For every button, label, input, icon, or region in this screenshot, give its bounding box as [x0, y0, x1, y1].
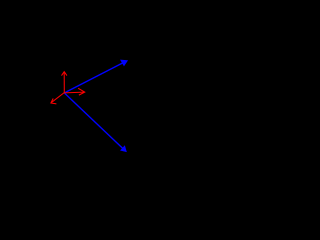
frame axis Y (red) arrowhead — [62, 72, 67, 76]
frame axis X (red) arrowhead — [78, 88, 85, 95]
vector V1 (blue) arrowhead — [121, 60, 128, 66]
frame axis Y (red, up) shaft — [63, 72, 65, 92]
frame axis Z (red) arrowhead — [51, 99, 57, 104]
frame axis X (red, right) shaft — [64, 91, 84, 94]
vector V2 (blue, down-right) shaft — [64, 93, 123, 149]
vector V1 (blue, up-right) shaft — [64, 62, 124, 93]
vector V2 (blue) arrowhead — [121, 146, 127, 152]
frame axis Z (red, down-left) shaft — [52, 93, 65, 103]
